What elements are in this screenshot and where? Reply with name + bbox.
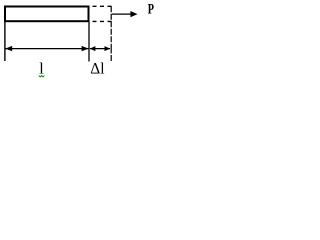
- svg-text:Δl: Δl: [90, 60, 104, 77]
- arrowhead left of Dl dimension: [90, 46, 96, 51]
- dashed elongation top edge: [93, 5, 113, 7]
- arrowhead left of l dimension: [5, 46, 12, 51]
- dimension line Dl shaft: [90, 48, 110, 50]
- svg-text:l: l: [39, 60, 44, 77]
- dashed elongation bottom edge: [93, 20, 113, 22]
- dimension line l shaft: [6, 48, 89, 50]
- dashed elongation right edge extension line lower part: [110, 48, 112, 62]
- middle extension line: [88, 22, 90, 62]
- arrowhead right of l dimension: [82, 46, 89, 51]
- arrowhead right of Dl dimension: [105, 46, 111, 51]
- left extension line: [4, 22, 6, 62]
- force arrow shaft: [112, 13, 132, 15]
- force arrow head: [130, 11, 137, 17]
- green squiggle under label l: [39, 76, 45, 77]
- bar (rod) rectangle: [5, 7, 89, 22]
- svg-text:P: P: [148, 2, 154, 18]
- dashed elongation right edge extension line: [110, 6, 112, 47]
